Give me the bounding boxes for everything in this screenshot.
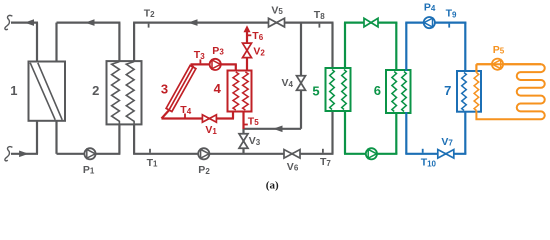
svg-text:6: 6: [374, 83, 381, 98]
svg-text:3: 3: [161, 82, 168, 97]
svg-text:5: 5: [312, 84, 319, 99]
svg-text:4: 4: [214, 81, 222, 96]
svg-text:7: 7: [444, 83, 451, 98]
svg-text:1: 1: [10, 83, 17, 98]
svg-text:2: 2: [92, 83, 99, 98]
svg-text:(a): (a): [266, 179, 279, 191]
